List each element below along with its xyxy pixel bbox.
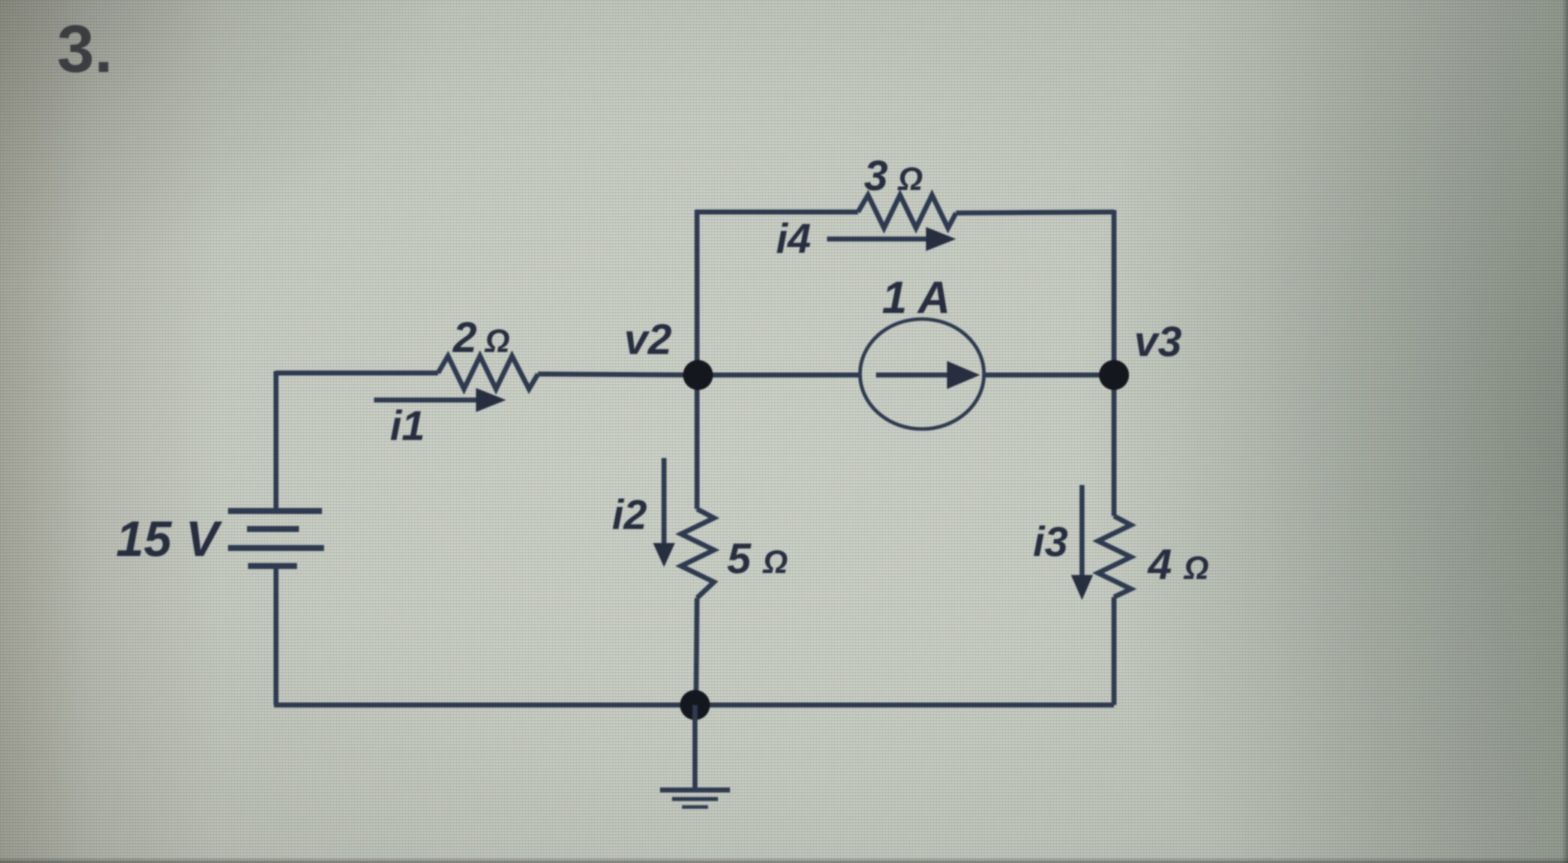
resistor R 3 ohm zigzag (858, 195, 956, 228)
wire from node v2 down to 5-ohm resistor (695, 375, 700, 509)
svg-text:15 V: 15 V (116, 511, 223, 567)
svg-text:4Ω: 4Ω (1147, 541, 1209, 589)
arrow i3 (1071, 485, 1093, 600)
wire left vertical from battery down to bottom-left corner (274, 566, 279, 705)
svg-text:1 A: 1 A (882, 272, 950, 323)
svg-text:3Ω: 3Ω (864, 152, 923, 200)
svg-text:3.: 3. (57, 12, 113, 87)
wire middle from current source to node v3 (984, 373, 1114, 378)
wire left vertical from top corner down to battery (274, 371, 279, 509)
wire middle from node v2 to current source (697, 373, 860, 378)
svg-text:i2: i2 (612, 491, 647, 538)
arrow i1 (374, 388, 506, 412)
svg-text:v2: v2 (624, 316, 672, 364)
node v2 junction dot (683, 360, 713, 390)
current source 1 A circle (860, 319, 984, 429)
wire right vertical from 4-ohm resistor to bottom-right corner (1112, 597, 1117, 705)
arrow i2 (653, 458, 675, 567)
ground (660, 705, 730, 807)
wire vertical from node v2 up to top wire (695, 210, 700, 375)
arrow i4 (827, 227, 956, 251)
wire top horizontal right part (956, 212, 1114, 213)
wire from 2-ohm resistor to node v2 (538, 374, 697, 375)
wire right vertical from top corner down to 4-ohm resistor (1112, 210, 1117, 516)
resistor R 5 ohm zigzag (681, 509, 714, 598)
resistor R 2 ohm zigzag (438, 356, 538, 389)
wire from 5-ohm resistor down to bottom node (696, 598, 697, 705)
battery 15 V (228, 511, 324, 566)
wire top horizontal left part (695, 210, 858, 215)
svg-text:i4: i4 (776, 215, 811, 262)
svg-text:v3: v3 (1134, 318, 1182, 366)
node bottom junction dot (680, 690, 710, 720)
svg-text:i1: i1 (390, 402, 425, 449)
wire bottom horizontal (274, 703, 1114, 708)
svg-text:i3: i3 (1033, 518, 1068, 565)
node v3 junction dot (1099, 360, 1129, 390)
wire top-left horizontal from battery top corner to 2-ohm resistor (276, 371, 438, 376)
svg-text:5Ω: 5Ω (727, 535, 788, 583)
resistor R 4 ohm zigzag (1098, 516, 1131, 597)
